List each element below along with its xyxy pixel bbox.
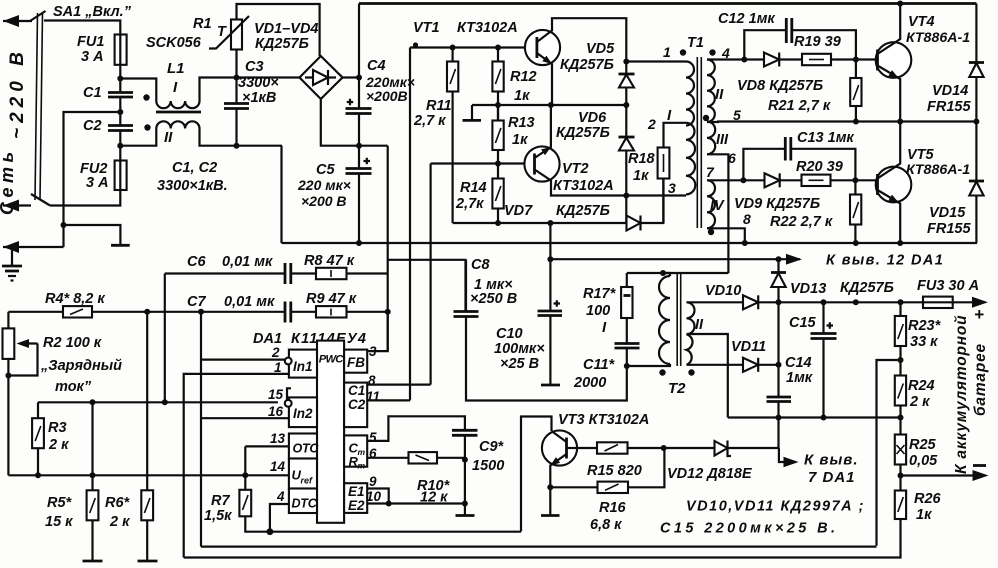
svg-text:VD13: VD13 xyxy=(790,281,826,297)
svg-text:II: II xyxy=(164,129,173,146)
wire R4 left leg down through R2 xyxy=(7,312,9,329)
svg-text:C1: C1 xyxy=(83,85,102,101)
chassis stub R6 xyxy=(138,560,158,563)
svg-text:C8: C8 xyxy=(471,257,490,273)
svg-text:VD6: VD6 xyxy=(578,110,607,126)
node VT1/VT2 emitters xyxy=(548,102,554,108)
svg-text:ОТС: ОТС xyxy=(293,442,320,456)
wire top from R1 to bridge top xyxy=(237,4,320,56)
wire DTC pin4 drop xyxy=(270,504,290,532)
capacitor C10 xyxy=(538,310,563,313)
svg-text:2,7к: 2,7к xyxy=(455,196,484,212)
svg-text:C4: C4 xyxy=(367,58,386,74)
svg-text:2: 2 xyxy=(647,116,656,132)
wire R1 bottom to C3 node xyxy=(235,50,237,104)
node VD10/VD13 + output xyxy=(776,299,782,305)
node rail B start xyxy=(547,256,553,262)
svg-text:C2: C2 xyxy=(83,118,102,134)
diode VD9 xyxy=(743,179,764,181)
svg-text:5: 5 xyxy=(733,107,741,123)
svg-text:С7: С7 xyxy=(187,294,206,310)
resistor R18 xyxy=(658,148,670,179)
capacitor C15 xyxy=(822,302,824,333)
svg-text:220 мк×: 220 мк× xyxy=(297,177,351,193)
svg-text:16: 16 xyxy=(268,404,284,419)
node pin7/VD9 xyxy=(740,177,746,183)
svg-text:R1: R1 xyxy=(193,16,212,32)
resistor R25 (shunt) xyxy=(895,435,906,465)
wire T2 sec bottom to VD11 xyxy=(687,364,744,366)
svg-text:0,01 мк: 0,01 мк xyxy=(224,294,275,310)
svg-text:1,5к: 1,5к xyxy=(204,508,232,524)
chassis stub R5 xyxy=(83,560,103,563)
node minus output xyxy=(898,473,904,479)
diode VD13 xyxy=(777,259,779,272)
IC cell CtRt xyxy=(344,435,367,466)
svg-text:C5: C5 xyxy=(316,162,335,178)
IC cell C1C2 xyxy=(344,383,367,428)
wire VT2 base line from pin8 column xyxy=(431,162,535,164)
svg-text:Т2: Т2 xyxy=(668,380,686,397)
diode VD11 xyxy=(743,358,758,372)
svg-text:С10: С10 xyxy=(496,326,523,342)
svg-text:14: 14 xyxy=(270,459,286,474)
node R22 bottom on rail A xyxy=(853,240,859,246)
wire R2 bottom to Uref rail xyxy=(7,359,9,475)
wire R6 column from C7 line xyxy=(146,312,148,491)
svg-text:R5*: R5* xyxy=(47,495,73,511)
svg-text:II: II xyxy=(695,317,704,333)
node VT4 emitter on mid-rail xyxy=(897,119,903,125)
svg-text:7: 7 xyxy=(706,164,715,180)
arrow + output xyxy=(972,297,988,308)
wire minus mid rail xyxy=(728,416,901,418)
svg-text:×1кВ: ×1кВ xyxy=(242,90,276,106)
capacitor C3 xyxy=(224,102,249,105)
IC cell In2 xyxy=(289,397,317,427)
wire pin15/16 bias line to IC xyxy=(201,417,289,419)
svg-text:3300×: 3300× xyxy=(238,75,279,91)
capacitor C5 (electrolytic) xyxy=(358,146,360,169)
node R20/R22/VT5 base xyxy=(852,177,858,183)
svg-text:R15 820: R15 820 xyxy=(587,463,642,479)
svg-text:0,05: 0,05 xyxy=(909,453,938,469)
svg-text:С13 1мк: С13 1мк xyxy=(797,130,854,146)
node VD14 anode on mid-rail xyxy=(973,119,979,125)
mains arrow top left xyxy=(3,20,32,22)
svg-text:VD14: VD14 xyxy=(932,83,968,99)
resistor R17* xyxy=(626,273,628,287)
capacitor C9* xyxy=(452,429,478,432)
chassis bar xyxy=(111,244,130,247)
resistor R7 xyxy=(244,475,246,490)
svg-text:VD7: VD7 xyxy=(504,203,533,219)
svg-text:КД257Б: КД257Б xyxy=(840,280,894,296)
T1 winding I upper xyxy=(686,62,694,126)
node C10 column top xyxy=(547,220,553,226)
zener VD12 xyxy=(715,441,728,456)
wire OTC pin13 line xyxy=(245,445,289,447)
node R11 top xyxy=(450,45,456,51)
svg-text:R18: R18 xyxy=(628,151,656,167)
svg-text:C3: C3 xyxy=(245,59,264,75)
wire C1 to C2 xyxy=(119,97,121,126)
resistor R10* xyxy=(409,452,438,463)
IC central strip PWC xyxy=(317,341,344,523)
node R5 on Uref rail xyxy=(90,472,96,478)
svg-text:100мк×: 100мк× xyxy=(494,341,545,357)
node C9/R10 xyxy=(462,457,468,463)
T1 winding IV xyxy=(707,180,715,228)
transistor VT3 xyxy=(542,430,577,465)
wire minus output with arrow xyxy=(901,474,986,476)
svg-text:SCK056: SCK056 xyxy=(146,35,202,51)
wire C2 to FU2 xyxy=(119,131,121,161)
node VD13 top on rail B xyxy=(776,256,782,262)
inductor L1 winding II xyxy=(120,129,156,146)
resistor R12 xyxy=(492,62,503,92)
svg-text:×25 В: ×25 В xyxy=(500,356,539,372)
svg-text:×200 В: ×200 В xyxy=(301,193,347,209)
svg-text:VD10: VD10 xyxy=(705,283,741,299)
node DTC drop on rail-1 xyxy=(267,528,274,535)
wire C13 jog xyxy=(743,149,785,181)
node C11 bottom / T2 primary bottom xyxy=(624,363,630,369)
node C15 bottom xyxy=(821,415,827,421)
svg-text:VT1: VT1 xyxy=(413,20,440,36)
phasing dot winding II xyxy=(709,49,715,55)
capacitor C8 xyxy=(454,310,479,313)
node R9/FB column xyxy=(385,309,391,315)
svg-text:R4* 8,2 к: R4* 8,2 к xyxy=(45,291,105,307)
svg-text:КД257Б: КД257Б xyxy=(556,203,610,219)
potentiometer R2 xyxy=(3,328,15,359)
resistor R8 xyxy=(316,268,347,279)
node R15/R16/VD12 xyxy=(661,445,667,451)
wire pin 5 Ct loop xyxy=(367,416,465,441)
svg-text:DТС: DТС xyxy=(292,497,318,511)
svg-text:FR155: FR155 xyxy=(927,99,971,115)
transistor VT2 xyxy=(524,146,559,181)
svg-text:т: т xyxy=(358,447,366,457)
svg-text:3 А: 3 А xyxy=(86,175,109,191)
node pin3 line / VD6 xyxy=(623,193,629,199)
wire T2 sec mid tap xyxy=(687,334,728,418)
chassis stub at left of emitter rail xyxy=(471,105,473,120)
T2 winding II xyxy=(687,302,695,365)
svg-text:R9 47 к: R9 47 к xyxy=(306,291,357,307)
phasing dot L1-I xyxy=(143,94,149,100)
node R12 top xyxy=(495,45,501,51)
wire pin 8 (C1) to driver column xyxy=(367,384,430,386)
svg-text:R2 100 к: R2 100 к xyxy=(43,335,102,351)
wire VT3 base to R15 xyxy=(577,447,597,449)
svg-text:4: 4 xyxy=(721,45,730,61)
resistor R4* xyxy=(63,306,92,317)
wire T2 primary bottom elbow xyxy=(627,364,670,366)
svg-text:К аккумуляторной: К аккумуляторной xyxy=(953,315,970,474)
svg-text:1500: 1500 xyxy=(472,458,504,474)
wire C6 line xyxy=(165,272,285,274)
wire T2 sec top to VD10 xyxy=(687,301,744,303)
diode VD7 xyxy=(627,216,641,231)
svg-text:1к: 1к xyxy=(916,507,932,523)
capacitor C7 xyxy=(284,302,287,323)
svg-text:VD11: VD11 xyxy=(731,339,766,355)
wire T2 primary top elbow xyxy=(663,273,670,276)
svg-text:2: 2 xyxy=(271,345,280,360)
node R24 bottom on minus mid rail xyxy=(898,415,904,421)
wire emitters node rail y=105 xyxy=(472,104,626,106)
core T2 xyxy=(676,272,678,366)
svg-text:С6: С6 xyxy=(187,254,206,270)
wire In1 pin1 line with left drop to rail-3 xyxy=(184,374,290,558)
T1 winding I lower xyxy=(686,123,695,195)
svg-text:6,8 к: 6,8 к xyxy=(590,517,622,533)
wire pin4 xyxy=(707,58,744,60)
svg-text:ток”: ток” xyxy=(55,379,92,395)
node R21 bottom on mid-rail xyxy=(853,119,859,125)
diode VD6 xyxy=(625,105,627,137)
svg-text:R11: R11 xyxy=(426,98,452,114)
svg-text:КТ886А-1: КТ886А-1 xyxy=(906,30,970,46)
capacitor C4 (electrolytic) xyxy=(346,107,372,110)
svg-text:3 А: 3 А xyxy=(81,49,104,65)
svg-text:3300×1кВ.: 3300×1кВ. xyxy=(157,178,228,194)
capacitor C1 xyxy=(108,91,133,94)
node T2 primary top xyxy=(660,270,666,276)
node pin4 wire junction xyxy=(741,57,747,63)
svg-text:11: 11 xyxy=(366,389,380,404)
wire R5 column xyxy=(91,402,93,490)
node R19/R21/VT4 base xyxy=(853,57,859,63)
svg-text:2 к: 2 к xyxy=(909,394,930,410)
resistor R9 xyxy=(316,306,347,317)
resistor R14 xyxy=(492,179,503,209)
resistor R3 xyxy=(32,418,44,448)
node C4 bottom on minus line xyxy=(356,143,362,149)
T1 winding III xyxy=(707,122,715,155)
fuse FU1 xyxy=(115,35,127,65)
wire switch top to FU1 xyxy=(44,21,120,35)
node C1/C2 midpoint xyxy=(117,109,123,115)
diode VD14 xyxy=(975,4,977,63)
svg-text:VD1–VD4: VD1–VD4 xyxy=(254,21,318,37)
inversion bubble pin 2 xyxy=(285,358,292,365)
capacitor C11* xyxy=(615,342,640,345)
svg-text:×200В: ×200В xyxy=(366,88,408,104)
wire pin 10 / E-line xyxy=(367,502,465,504)
svg-text:T: T xyxy=(217,24,227,40)
label minus terminal xyxy=(973,464,986,467)
resistor R6* xyxy=(141,490,153,520)
svg-text:R17*: R17* xyxy=(583,286,617,302)
wire pin3 xyxy=(626,194,686,196)
svg-text:L1: L1 xyxy=(167,60,185,77)
wire bridge bottom (-) to minus line xyxy=(321,99,388,146)
wire column x=201 from C7 line down to rail-2 xyxy=(200,312,202,547)
+310V top rail xyxy=(359,2,976,5)
svg-text:In1: In1 xyxy=(293,359,313,374)
node R23/R24 (feedback tap) xyxy=(898,357,904,363)
svg-text:6: 6 xyxy=(728,150,736,166)
IC cell In1 xyxy=(289,350,317,378)
svg-text:1: 1 xyxy=(274,360,282,375)
wire VD11 node column with C14 xyxy=(777,302,779,365)
svg-text:1к: 1к xyxy=(633,168,649,184)
svg-text:R7: R7 xyxy=(211,493,230,509)
node R12/R13 midpoint xyxy=(495,102,501,108)
svg-text:R12: R12 xyxy=(510,69,537,85)
T1 winding II xyxy=(707,60,715,122)
wire FU2 to switch bottom xyxy=(50,190,120,206)
svg-text:VT2: VT2 xyxy=(562,161,589,177)
svg-text:С15 2200мк×25 В.: С15 2200мк×25 В. xyxy=(660,521,839,537)
svg-text:К выв. 12 DA1: К выв. 12 DA1 xyxy=(826,253,944,269)
svg-text:т: т xyxy=(358,461,366,471)
switch SA1 blade bottom xyxy=(31,194,50,206)
wire bridge right (+) to C4 node and top rail riser xyxy=(343,78,360,109)
wire rail-2 (to feedback divider) xyxy=(201,545,877,547)
svg-text:С2: С2 xyxy=(348,397,366,412)
svg-text:С11*: С11* xyxy=(583,357,616,373)
node bypass/chassis junction xyxy=(61,222,67,228)
mains arrow lower left xyxy=(3,246,64,248)
wire + output rail xyxy=(779,301,924,303)
svg-text:FR155: FR155 xyxy=(927,221,971,237)
node bridge+/C4 xyxy=(356,75,362,81)
svg-text:КД257Б: КД257Б xyxy=(255,36,309,52)
phasing dot winding I xyxy=(680,49,686,55)
node C5 bottom on rail A xyxy=(356,240,362,246)
svg-text:R14: R14 xyxy=(460,180,487,196)
wire pin8 column xyxy=(430,164,432,385)
svg-text:R13: R13 xyxy=(508,115,535,131)
svg-text:R22 2,7 к: R22 2,7 к xyxy=(770,214,833,230)
fuse FU2 xyxy=(115,161,127,191)
svg-text:1к: 1к xyxy=(512,132,528,148)
wire pin6 xyxy=(707,154,728,273)
thermistor R1 xyxy=(231,20,242,50)
svg-text:КТ3102А: КТ3102А xyxy=(457,20,518,36)
node R13/VT2 base xyxy=(495,161,501,167)
node R2 wiper tie xyxy=(5,373,11,379)
node R4/201-col xyxy=(198,309,204,315)
chassis stub C10 bottom xyxy=(541,384,560,387)
svg-text:In2: In2 xyxy=(293,406,313,421)
minus column down from minus line xyxy=(387,146,389,351)
node FU1/L1 junction xyxy=(117,76,123,82)
svg-text:IV: IV xyxy=(710,198,725,214)
wire midpoint to left bypass column xyxy=(64,112,121,225)
svg-text:2 к: 2 к xyxy=(48,437,69,453)
wire rail B left segment (FB loop) xyxy=(388,260,466,311)
resistor R15 xyxy=(597,442,628,453)
phasing dot L1-II xyxy=(144,124,150,130)
capacitor C2 xyxy=(108,124,133,127)
inversion bubble pin 16 xyxy=(285,400,292,407)
node VD5/VD6 midpoint xyxy=(623,102,629,108)
svg-text:~220 В: ~220 В xyxy=(7,47,28,139)
wire node to bridge left AC column xyxy=(237,76,282,78)
svg-text:+: + xyxy=(974,305,984,324)
svg-text:R23*: R23* xyxy=(908,318,942,334)
wire In2 line xyxy=(38,401,278,403)
IC cell Uref xyxy=(289,459,317,489)
wire C6 left leg down to In2 line xyxy=(164,274,166,403)
node R1/C3/L1 junction xyxy=(234,75,240,81)
core T1 xyxy=(696,57,698,228)
T2 winding I xyxy=(659,276,670,364)
wire VD12 to C14 column and K vyv 7 arrow xyxy=(779,448,795,462)
IC cell DTC xyxy=(289,489,317,514)
svg-text:13: 13 xyxy=(270,431,286,446)
wire FU1 to C1 xyxy=(119,65,121,93)
wire rail A (VT5 emitter rail) xyxy=(282,242,978,244)
svg-text:SA1 „Вкл.”: SA1 „Вкл.” xyxy=(53,4,132,20)
svg-text:1: 1 xyxy=(663,44,671,60)
svg-text:8: 8 xyxy=(368,373,376,388)
node C6 leg on In2 line xyxy=(162,399,168,405)
node VT4 collector on top rail xyxy=(897,1,903,7)
wire pin 6 Rt through R10 xyxy=(367,457,408,459)
svg-text:С15: С15 xyxy=(789,315,817,331)
resistor R26 xyxy=(895,491,906,520)
svg-text:4: 4 xyxy=(276,489,285,504)
capacitor C12 jog xyxy=(744,30,786,59)
ground symbol (earth) below lower arrow xyxy=(11,247,13,265)
wire C7/R4 line xyxy=(8,311,63,313)
svg-text:R6*: R6* xyxy=(105,495,131,511)
svg-text:7 DA1: 7 DA1 xyxy=(808,469,856,486)
node VT3 emitter xyxy=(547,484,553,490)
svg-text:1к: 1к xyxy=(514,88,530,104)
svg-text:15: 15 xyxy=(268,387,284,402)
wire junction to chassis stub xyxy=(64,225,121,245)
resistor R13 xyxy=(492,121,503,151)
transistor VT5 xyxy=(876,167,912,203)
resistor R20 xyxy=(802,175,831,186)
svg-text:5: 5 xyxy=(369,430,377,445)
svg-text:КД257Б: КД257Б xyxy=(560,57,614,73)
wire base bias rail y=47.5 xyxy=(410,46,537,48)
resistor R21 xyxy=(850,78,861,106)
node pins 9/10 join xyxy=(386,501,392,507)
wire AC2 column crossing to bridge left corner xyxy=(280,146,282,243)
wire pin 9 jog xyxy=(367,489,389,504)
svg-text:10: 10 xyxy=(366,489,382,504)
wire VT3 collector from rail-1 xyxy=(521,417,552,532)
svg-text:С14: С14 xyxy=(785,355,812,371)
capacitor C6 xyxy=(284,263,287,284)
svg-text:ref: ref xyxy=(301,476,314,486)
svg-text:9: 9 xyxy=(369,474,377,489)
svg-text:Т1: Т1 xyxy=(687,35,704,51)
wire C9 column down to E-line xyxy=(464,460,466,504)
node C3 bottom on AC line xyxy=(234,143,240,149)
inductor L1 winding I xyxy=(120,79,156,102)
wire pin1 xyxy=(626,60,686,62)
mains arrow middle left xyxy=(3,204,31,206)
transistor VT1 xyxy=(525,30,560,65)
svg-text:R16: R16 xyxy=(599,500,627,516)
wire pin11 column xyxy=(409,48,411,401)
node R3 bottom on Uref rail xyxy=(35,472,41,478)
node VT5 emitter on rail A xyxy=(897,240,903,246)
wire VD7 anode from pin3 node xyxy=(625,196,627,224)
svg-text:33 к: 33 к xyxy=(910,334,938,350)
wire In1 pin2 line xyxy=(201,359,287,361)
